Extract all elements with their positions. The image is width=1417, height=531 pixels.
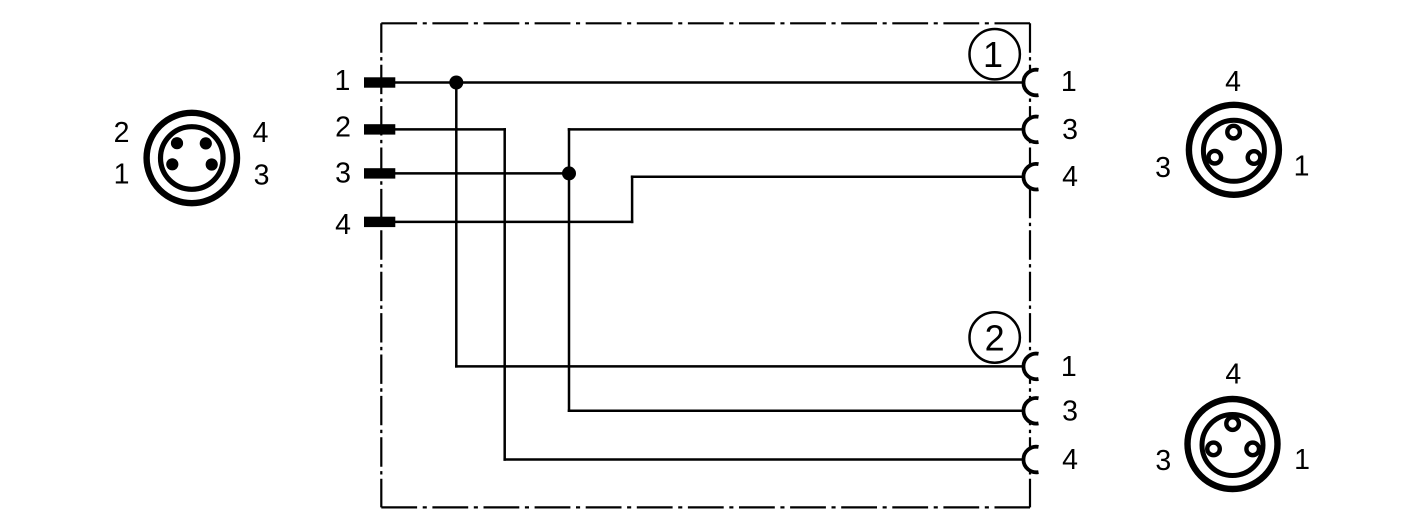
wire junction1 vertical drop — [455, 83, 458, 367]
svg-text:1: 1 — [983, 34, 1003, 75]
box right border — [1029, 23, 1031, 507]
left connector pin 1 dot (bottom-left) — [166, 158, 178, 170]
connector1 outer circle — [1189, 105, 1279, 195]
svg-text:4: 4 — [1225, 359, 1241, 391]
svg-text:3: 3 — [1062, 395, 1078, 427]
svg-text:4: 4 — [335, 209, 351, 241]
svg-text:3: 3 — [335, 158, 351, 190]
input pin 3 terminal block — [364, 168, 395, 178]
box left border — [380, 23, 382, 507]
wire to output2 pin3 horizontal — [569, 410, 1023, 413]
svg-text:1: 1 — [334, 65, 350, 97]
svg-text:1: 1 — [1294, 151, 1310, 183]
wire pin2 horizontal — [395, 128, 504, 131]
output2 socket pin 1 — [1023, 354, 1049, 380]
connector2 outer circle — [1188, 399, 1278, 489]
output2 socket pin 4 — [1023, 447, 1049, 473]
wire to output1 pin3 horizontal — [569, 128, 1023, 131]
wire to output1 pin4 horizontal — [632, 175, 1023, 178]
svg-text:4: 4 — [253, 117, 269, 149]
box bottom border — [381, 506, 1030, 508]
wire pin2 vertical drop — [503, 129, 506, 459]
svg-text:1: 1 — [1061, 66, 1077, 98]
svg-text:2: 2 — [335, 112, 351, 144]
left connector inner circle — [161, 127, 224, 190]
left M8 4-pin connector face — [114, 113, 270, 203]
input pin 1 terminal block — [364, 77, 395, 87]
wire junction2 vertical — [568, 129, 571, 410]
connector1 pin 4 (top) — [1227, 126, 1240, 139]
connector1 pin 1 (right) — [1248, 151, 1261, 164]
wire pin4 vertical rise — [631, 177, 634, 222]
circled branch number 1 — [970, 29, 1020, 79]
input pin 4 terminal block — [364, 217, 395, 227]
connector1 pin 3 (left) — [1209, 151, 1222, 164]
right connector 2 (M8 3-pin face, bottom) — [1155, 359, 1310, 489]
svg-text:1: 1 — [1061, 351, 1077, 383]
circled branch number 2 — [970, 312, 1020, 362]
svg-text:3: 3 — [1155, 152, 1171, 184]
box top border — [381, 22, 1030, 24]
svg-text:2: 2 — [114, 117, 130, 149]
wire to output2 pin4 horizontal — [505, 458, 1024, 461]
left connector pin 2 dot (top-left) — [171, 137, 183, 149]
output2 socket pin 3 — [1023, 398, 1049, 424]
connector1 inner circle — [1203, 120, 1264, 181]
svg-text:1: 1 — [1294, 444, 1310, 476]
output1 socket pin 1 — [1023, 70, 1049, 96]
left connector pin 4 dot (top-right) — [200, 137, 212, 149]
wire pin4 horizontal — [395, 221, 632, 224]
output1 socket pin 3 — [1023, 117, 1049, 143]
svg-text:4: 4 — [1225, 66, 1241, 98]
svg-text:4: 4 — [1062, 161, 1078, 193]
left connector outer circle — [147, 113, 237, 203]
right connector 1 (M8 3-pin face, top) — [1155, 66, 1309, 195]
svg-text:3: 3 — [254, 160, 270, 192]
wire pin1 horizontal to output1 pin1 — [395, 81, 1023, 84]
dash-dot enclosure box — [381, 23, 1030, 507]
connector2 pin 3 (left) — [1207, 443, 1220, 456]
junction dot A (wire1 / output2 pin1 branch) — [449, 76, 463, 90]
output1 socket pin 4 — [1023, 164, 1049, 190]
svg-text:3: 3 — [1155, 445, 1171, 477]
input pin 2 terminal block — [364, 124, 395, 134]
junction dot B (wire3 branch) — [562, 166, 576, 180]
svg-text:4: 4 — [1062, 444, 1078, 476]
svg-text:1: 1 — [114, 159, 130, 191]
svg-text:3: 3 — [1062, 114, 1078, 146]
connector2 pin 4 (top) — [1226, 417, 1239, 430]
wire pin3 horizontal to junction2 — [395, 172, 569, 175]
left connector pin 3 dot (bottom-right) — [206, 158, 218, 170]
svg-text:2: 2 — [985, 317, 1005, 358]
connector2 pin 1 (right) — [1246, 443, 1259, 456]
wire to output2 pin1 horizontal — [456, 365, 1023, 368]
connector2 inner circle — [1202, 415, 1263, 476]
